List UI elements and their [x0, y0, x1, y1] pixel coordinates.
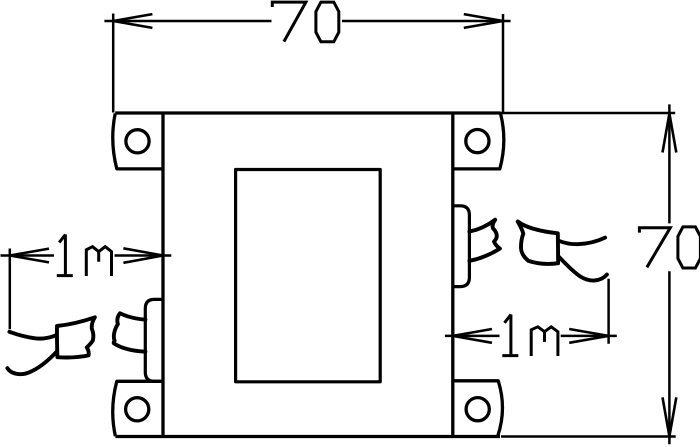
extension line right-top: [499, 112, 675, 115]
left cable grommet bump: [145, 299, 163, 381]
right wire strand lower: [559, 257, 607, 281]
extension line left 1m: [9, 249, 12, 330]
mounting tab top-left: [113, 113, 163, 168]
tab hole top-left: [126, 130, 149, 153]
tab hole top-right: [466, 130, 489, 153]
extension line top-right: [502, 14, 505, 113]
extension line right 1m: [607, 279, 610, 344]
right dim arrow up: [663, 114, 677, 153]
right cable grommet bump: [453, 206, 470, 287]
left outer ribbon flag: [57, 317, 95, 357]
extension line top-left: [112, 14, 115, 113]
right 1m arrow left: [453, 329, 492, 343]
right wire strand upper: [559, 238, 605, 245]
right outer ribbon flag: [518, 222, 558, 264]
right 1m arrow right: [569, 329, 608, 343]
left 1m arrow left: [10, 249, 49, 263]
mounting tab top-right: [453, 113, 504, 168]
left 1m arrow right: [123, 248, 163, 262]
right text 1m digit 1: [502, 314, 518, 355]
top text 70 digit 7: [272, 2, 306, 42]
left 1m dimension line: [1, 254, 172, 257]
extension line right-bottom: [501, 435, 676, 438]
top dim arrow right: [464, 14, 503, 28]
right dim arrow down: [663, 397, 677, 436]
top text 70 digit 0: [316, 2, 339, 42]
right dimension line 70: [668, 104, 671, 444]
right inner ribbon flag: [469, 220, 500, 261]
mounting tab bottom-right: [453, 381, 503, 436]
right text 70 digit 7: [639, 228, 670, 268]
inner rectangle (core window): [236, 170, 381, 382]
body outline: [115, 113, 500, 437]
left text 1m digit 1: [57, 234, 73, 275]
right 1m dimension line: [445, 335, 617, 338]
mounting tab bottom-left: [113, 381, 163, 436]
top dimension line 70: [104, 20, 510, 23]
right text 70 digit 0: [678, 227, 700, 268]
top dim arrow left: [113, 14, 152, 28]
left text 1m letter m: [86, 247, 111, 276]
right text 1m letter m: [531, 327, 558, 356]
tab hole bottom-left: [126, 398, 149, 421]
left wire strand lower: [7, 352, 56, 374]
left inner ribbon flag: [114, 313, 146, 352]
tab hole bottom-right: [466, 398, 489, 421]
left wire strand upper: [9, 332, 56, 339]
